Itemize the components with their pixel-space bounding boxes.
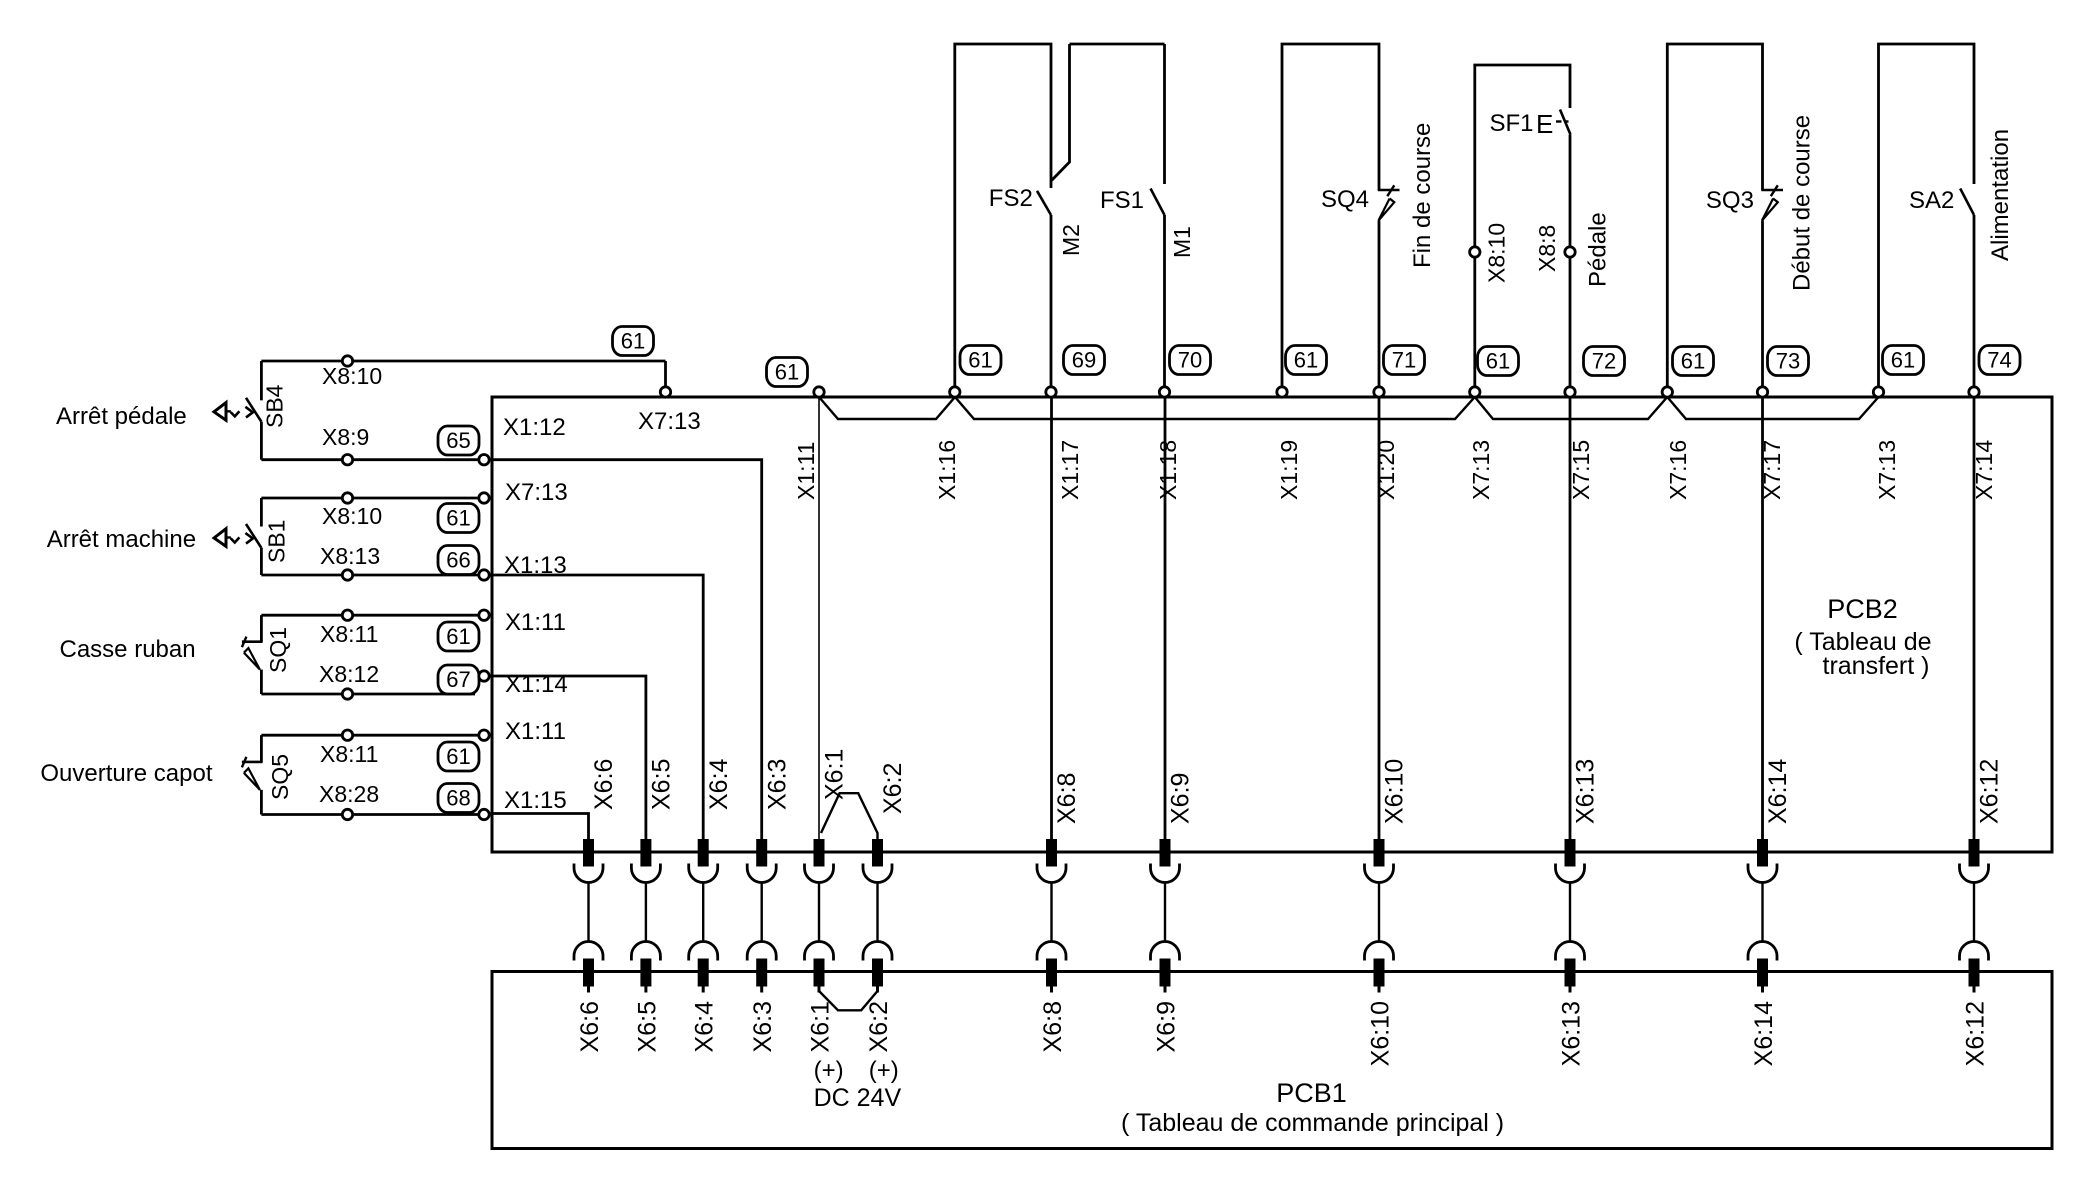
- svg-text:X1:11: X1:11: [505, 718, 566, 745]
- svg-text:X1:11: X1:11: [793, 442, 819, 500]
- svg-text:74: 74: [1987, 348, 2011, 373]
- svg-text:SB1: SB1: [263, 520, 289, 563]
- svg-text:(+): (+): [814, 1057, 844, 1084]
- svg-text:X6:5: X6:5: [633, 1001, 661, 1052]
- svg-text:Pédale: Pédale: [1585, 212, 1612, 287]
- svg-text:70: 70: [1178, 348, 1202, 373]
- svg-text:X7:15: X7:15: [1568, 440, 1594, 500]
- svg-text:X8:10: X8:10: [322, 503, 382, 529]
- svg-text:X8:11: X8:11: [320, 741, 378, 767]
- svg-text:X8:13: X8:13: [320, 543, 380, 569]
- svg-text:X8:9: X8:9: [322, 424, 369, 450]
- svg-text:X6:9: X6:9: [1167, 773, 1195, 824]
- svg-text:SQ1: SQ1: [265, 627, 291, 673]
- svg-text:X6:13: X6:13: [1558, 1001, 1586, 1066]
- svg-text:61: 61: [621, 329, 645, 354]
- svg-text:DC 24V: DC 24V: [814, 1084, 902, 1112]
- svg-text:X8:11: X8:11: [320, 621, 378, 647]
- svg-text:X6:13: X6:13: [1572, 759, 1600, 824]
- svg-text:X8:10: X8:10: [1484, 223, 1510, 283]
- svg-text:61: 61: [1681, 349, 1705, 374]
- svg-text:X1:13: X1:13: [504, 552, 567, 579]
- svg-text:SQ3: SQ3: [1706, 187, 1754, 214]
- svg-text:X6:10: X6:10: [1367, 1001, 1395, 1066]
- svg-text:X6:5: X6:5: [648, 759, 676, 810]
- svg-text:X8:28: X8:28: [319, 781, 379, 807]
- svg-text:68: 68: [446, 786, 470, 811]
- svg-text:X6:12: X6:12: [1962, 1001, 1990, 1066]
- svg-text:X1:15: X1:15: [504, 787, 567, 814]
- svg-text:X1:14: X1:14: [505, 671, 568, 698]
- svg-text:PCB1: PCB1: [1276, 1078, 1347, 1108]
- svg-text:71: 71: [1392, 348, 1416, 373]
- svg-text:65: 65: [446, 428, 470, 453]
- svg-text:61: 61: [775, 360, 799, 385]
- svg-text:X7:16: X7:16: [1665, 440, 1691, 500]
- svg-text:Début de course: Début de course: [1789, 115, 1816, 291]
- svg-text:X7:14: X7:14: [1971, 440, 1997, 500]
- svg-text:X1:16: X1:16: [934, 440, 960, 500]
- svg-text:FS1: FS1: [1100, 187, 1144, 214]
- svg-text:61: 61: [446, 506, 470, 531]
- svg-text:transfert ): transfert ): [1823, 652, 1930, 680]
- svg-text:SQ4: SQ4: [1321, 186, 1369, 213]
- svg-text:X6:9: X6:9: [1153, 1001, 1181, 1052]
- svg-text:X6:14: X6:14: [1750, 1001, 1778, 1066]
- svg-text:X1:12: X1:12: [503, 414, 566, 441]
- svg-text:X1:18: X1:18: [1155, 440, 1181, 500]
- svg-text:67: 67: [446, 667, 470, 692]
- svg-text:X7:13: X7:13: [1874, 440, 1900, 500]
- svg-text:X1:19: X1:19: [1276, 440, 1302, 500]
- svg-text:61: 61: [446, 624, 470, 649]
- svg-text:X6:4: X6:4: [691, 1001, 719, 1053]
- svg-text:SB4: SB4: [262, 384, 288, 428]
- svg-text:69: 69: [1072, 348, 1096, 373]
- svg-text:X6:4: X6:4: [705, 758, 733, 810]
- svg-text:M2: M2: [1058, 224, 1084, 256]
- svg-text:X6:8: X6:8: [1053, 773, 1081, 824]
- svg-text:X6:6: X6:6: [590, 759, 618, 810]
- svg-text:X6:2: X6:2: [879, 763, 907, 814]
- svg-text:X6:1: X6:1: [807, 1001, 835, 1052]
- svg-text:61: 61: [1486, 349, 1510, 374]
- svg-text:Ouverture capot: Ouverture capot: [40, 760, 212, 787]
- svg-text:PCB2: PCB2: [1827, 594, 1898, 624]
- svg-text:E: E: [1536, 109, 1553, 139]
- svg-text:Casse ruban: Casse ruban: [60, 636, 196, 663]
- svg-text:FS2: FS2: [989, 185, 1033, 212]
- svg-text:X1:20: X1:20: [1373, 440, 1399, 500]
- svg-text:X1:17: X1:17: [1057, 440, 1083, 500]
- svg-text:X8:12: X8:12: [319, 661, 379, 687]
- svg-text:X6:2: X6:2: [865, 1001, 893, 1052]
- svg-text:M1: M1: [1169, 226, 1195, 258]
- svg-text:73: 73: [1776, 349, 1800, 374]
- svg-text:66: 66: [446, 548, 470, 573]
- svg-text:Arrêt machine: Arrêt machine: [47, 526, 196, 553]
- svg-text:SA2: SA2: [1909, 187, 1954, 214]
- svg-text:SQ5: SQ5: [267, 754, 293, 800]
- svg-text:Arrêt pédale: Arrêt pédale: [56, 403, 187, 430]
- svg-text:X6:3: X6:3: [763, 759, 791, 810]
- svg-text:Alimentation: Alimentation: [1987, 129, 2014, 261]
- svg-text:X6:8: X6:8: [1039, 1001, 1067, 1052]
- svg-text:X8:10: X8:10: [322, 363, 382, 389]
- svg-text:X6:14: X6:14: [1764, 759, 1792, 824]
- svg-text:X6:1: X6:1: [821, 749, 849, 800]
- svg-text:61: 61: [446, 744, 470, 769]
- svg-text:( Tableau de commande principa: ( Tableau de commande principal ): [1121, 1109, 1504, 1137]
- svg-text:X6:12: X6:12: [1976, 759, 2004, 824]
- svg-text:X7:13: X7:13: [638, 408, 701, 435]
- svg-text:61: 61: [1891, 348, 1915, 373]
- svg-text:X6:10: X6:10: [1381, 759, 1409, 824]
- svg-text:SF1: SF1: [1490, 110, 1534, 137]
- svg-text:X8:8: X8:8: [1534, 225, 1560, 272]
- svg-text:X6:3: X6:3: [749, 1001, 777, 1052]
- svg-text:61: 61: [968, 348, 992, 373]
- svg-text:(+): (+): [869, 1057, 899, 1084]
- svg-text:61: 61: [1294, 348, 1318, 373]
- svg-text:X7:17: X7:17: [1759, 440, 1785, 500]
- svg-text:72: 72: [1592, 349, 1616, 374]
- svg-text:X7:13: X7:13: [505, 479, 568, 506]
- svg-text:X1:11: X1:11: [505, 609, 566, 636]
- svg-text:X7:13: X7:13: [1468, 440, 1494, 500]
- svg-text:Fin de course: Fin de course: [1409, 123, 1436, 268]
- svg-text:X6:6: X6:6: [576, 1001, 604, 1052]
